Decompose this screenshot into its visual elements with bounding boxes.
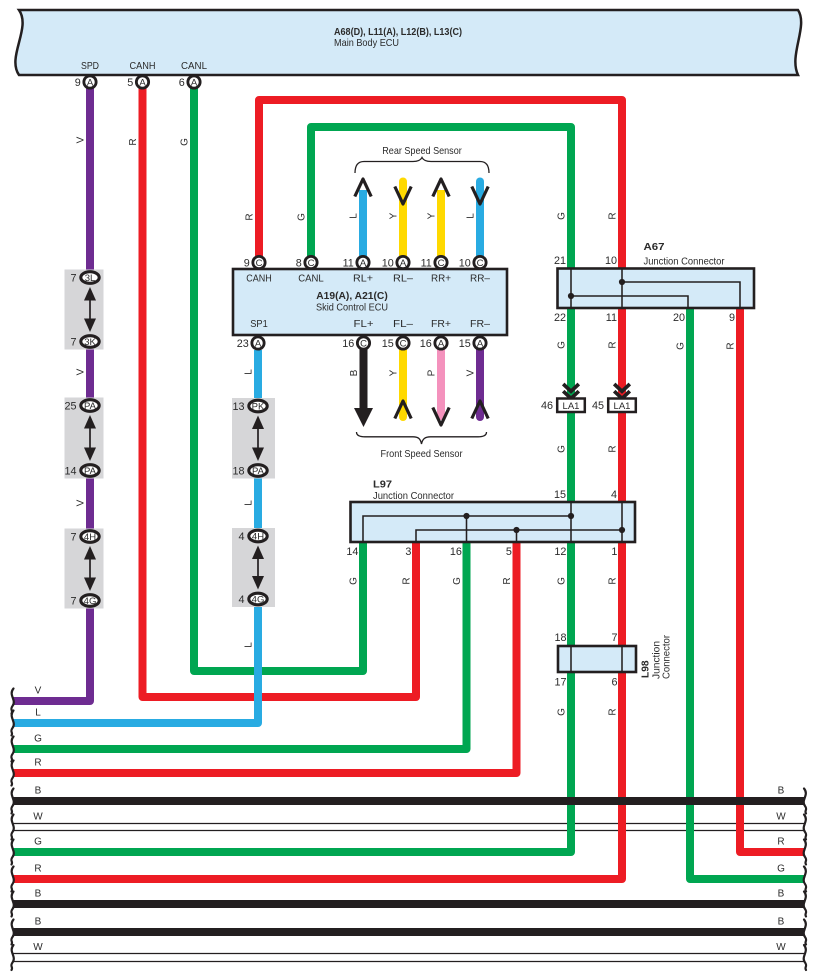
svg-text:3: 3 [405, 546, 411, 558]
svg-text:RR+: RR+ [431, 273, 451, 285]
svg-text:25: 25 [64, 400, 76, 412]
svg-text:RL+: RL+ [353, 273, 373, 285]
svg-text:9: 9 [244, 257, 250, 269]
svg-text:V: V [466, 369, 477, 376]
svg-text:11: 11 [343, 257, 354, 269]
svg-text:16: 16 [450, 546, 462, 558]
svg-text:G: G [777, 864, 785, 875]
svg-text:W: W [776, 812, 786, 823]
svg-text:C: C [438, 258, 445, 269]
svg-text:V: V [76, 499, 87, 506]
svg-text:CANL: CANL [181, 61, 207, 72]
svg-text:C: C [308, 258, 315, 269]
svg-text:R: R [245, 213, 256, 220]
svg-text:G: G [34, 734, 42, 745]
svg-text:G: G [557, 577, 568, 585]
svg-text:7: 7 [70, 531, 76, 543]
svg-text:C: C [477, 258, 484, 269]
svg-text:L: L [349, 213, 360, 219]
svg-text:A: A [400, 258, 407, 269]
svg-text:FL–: FL– [393, 318, 413, 330]
svg-text:7: 7 [70, 595, 76, 607]
svg-text:4G: 4G [252, 594, 265, 605]
svg-text:A: A [87, 77, 94, 88]
svg-text:R: R [608, 577, 619, 584]
svg-text:R: R [34, 758, 41, 769]
svg-text:A: A [139, 77, 146, 88]
svg-text:12: 12 [554, 546, 566, 558]
svg-text:10: 10 [382, 257, 394, 269]
svg-text:Junction Connector: Junction Connector [373, 490, 454, 502]
svg-text:4H: 4H [84, 532, 96, 543]
svg-text:18: 18 [232, 465, 244, 477]
svg-text:G: G [557, 212, 568, 220]
svg-text:10: 10 [459, 257, 471, 269]
svg-text:11: 11 [421, 257, 432, 269]
svg-text:G: G [34, 837, 42, 848]
svg-text:L: L [244, 369, 255, 375]
svg-text:15: 15 [554, 489, 566, 501]
svg-text:15: 15 [459, 338, 471, 350]
svg-text:CANH: CANH [246, 273, 272, 285]
svg-text:8: 8 [296, 257, 302, 269]
svg-text:3K: 3K [84, 337, 96, 348]
svg-text:R: R [777, 837, 784, 848]
svg-text:G: G [452, 577, 463, 585]
svg-text:B: B [35, 889, 42, 900]
svg-text:B: B [349, 369, 360, 376]
svg-text:G: G [557, 708, 568, 716]
svg-text:P: P [427, 369, 438, 376]
svg-text:V: V [76, 368, 87, 375]
svg-text:LA1: LA1 [614, 401, 631, 412]
svg-text:18: 18 [554, 632, 566, 644]
svg-text:CANH: CANH [130, 61, 156, 72]
svg-text:RL–: RL– [393, 273, 413, 285]
svg-text:9: 9 [729, 312, 735, 324]
svg-text:C: C [400, 338, 407, 349]
svg-text:14: 14 [346, 546, 358, 558]
svg-text:FR–: FR– [470, 318, 490, 330]
svg-text:G: G [557, 341, 568, 349]
svg-text:45: 45 [592, 400, 604, 412]
svg-text:23: 23 [237, 338, 249, 350]
svg-text:4: 4 [611, 489, 617, 501]
svg-text:L97: L97 [373, 479, 392, 491]
svg-text:V: V [76, 136, 87, 143]
svg-text:R: R [608, 445, 619, 452]
svg-text:A: A [255, 338, 262, 349]
svg-text:Front Speed Sensor: Front Speed Sensor [381, 448, 463, 460]
svg-text:Y: Y [427, 212, 438, 219]
svg-text:FR+: FR+ [431, 318, 451, 330]
svg-text:4H: 4H [252, 531, 264, 542]
svg-text:G: G [676, 342, 687, 350]
svg-text:Connector: Connector [662, 634, 673, 679]
svg-text:C: C [360, 338, 367, 349]
svg-text:6: 6 [611, 677, 617, 689]
svg-text:1: 1 [611, 546, 617, 558]
svg-text:R: R [128, 138, 139, 145]
svg-text:Main Body ECU: Main Body ECU [334, 37, 399, 49]
svg-text:10: 10 [605, 255, 617, 267]
svg-text:R: R [502, 577, 513, 584]
svg-text:L: L [35, 708, 41, 719]
svg-text:11: 11 [606, 312, 617, 324]
svg-text:B: B [778, 917, 785, 928]
svg-text:G: G [297, 213, 308, 221]
svg-text:14: 14 [64, 465, 76, 477]
svg-text:R: R [726, 342, 737, 349]
svg-text:A67: A67 [644, 241, 665, 253]
svg-text:9: 9 [75, 77, 81, 89]
svg-text:4: 4 [238, 594, 244, 606]
svg-text:A: A [477, 338, 484, 349]
svg-text:G: G [349, 577, 360, 585]
svg-text:5: 5 [127, 77, 133, 89]
svg-text:A: A [438, 338, 445, 349]
svg-text:G: G [180, 138, 191, 146]
svg-text:SP1: SP1 [250, 318, 268, 330]
svg-text:PK: PK [252, 401, 265, 412]
svg-text:SPD: SPD [81, 61, 99, 72]
svg-text:Y: Y [389, 369, 400, 376]
svg-text:R: R [34, 864, 41, 875]
svg-text:R: R [608, 212, 619, 219]
svg-text:20: 20 [673, 312, 685, 324]
svg-text:Junction Connector: Junction Connector [644, 256, 725, 268]
svg-text:L: L [244, 642, 255, 648]
svg-text:V: V [35, 686, 42, 697]
svg-text:6: 6 [179, 77, 185, 89]
svg-text:LA1: LA1 [563, 401, 580, 412]
svg-text:W: W [776, 942, 786, 953]
svg-text:7: 7 [611, 632, 617, 644]
svg-text:7: 7 [70, 272, 76, 284]
svg-text:PA: PA [84, 466, 97, 477]
svg-text:5: 5 [506, 546, 512, 558]
svg-text:15: 15 [382, 338, 394, 350]
svg-text:4: 4 [238, 531, 244, 543]
svg-text:PA: PA [84, 401, 97, 412]
svg-text:46: 46 [541, 400, 553, 412]
svg-text:W: W [33, 942, 43, 953]
svg-text:A: A [191, 77, 198, 88]
svg-text:G: G [557, 445, 568, 453]
svg-text:7: 7 [70, 336, 76, 348]
svg-text:17: 17 [554, 677, 566, 689]
svg-text:W: W [33, 812, 43, 823]
svg-text:A: A [360, 258, 367, 269]
svg-text:RR–: RR– [470, 273, 490, 285]
svg-text:21: 21 [554, 255, 566, 267]
svg-text:L98: L98 [641, 660, 652, 678]
svg-text:B: B [35, 917, 42, 928]
svg-text:B: B [778, 889, 785, 900]
svg-text:22: 22 [554, 312, 566, 324]
svg-text:B: B [35, 786, 42, 797]
svg-text:16: 16 [420, 338, 432, 350]
svg-text:B: B [778, 786, 785, 797]
svg-text:L: L [244, 500, 255, 506]
svg-text:Y: Y [389, 212, 400, 219]
svg-text:16: 16 [342, 338, 354, 350]
svg-text:4G: 4G [84, 596, 97, 607]
svg-text:R: R [608, 708, 619, 715]
svg-text:FL+: FL+ [354, 318, 374, 330]
svg-text:C: C [256, 258, 263, 269]
svg-text:R: R [608, 341, 619, 348]
svg-text:CANL: CANL [298, 273, 324, 285]
svg-text:R: R [402, 577, 413, 584]
svg-text:Rear Speed Sensor: Rear Speed Sensor [382, 145, 462, 157]
svg-text:3L: 3L [85, 273, 96, 284]
svg-text:13: 13 [232, 401, 244, 413]
svg-text:A19(A), A21(C): A19(A), A21(C) [316, 290, 388, 302]
svg-text:Skid Control ECU: Skid Control ECU [316, 302, 388, 314]
svg-text:L: L [466, 213, 477, 219]
svg-text:PA: PA [252, 466, 265, 477]
